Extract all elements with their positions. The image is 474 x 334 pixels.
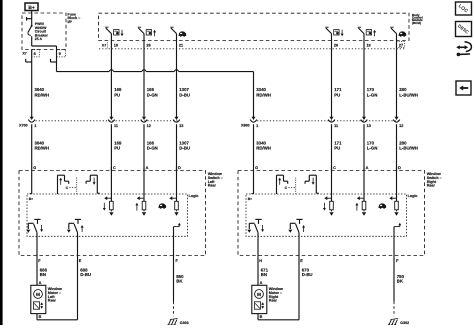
svg-text:D-BU: D-BU [179, 92, 190, 97]
svg-text:PU: PU [334, 92, 340, 97]
svg-text:A: A [366, 166, 369, 170]
svg-text:D-BU: D-BU [80, 272, 91, 277]
connector X800 pin 11 [328, 114, 338, 129]
wire 169 PU upper [111, 49, 122, 114]
svg-text:11: 11 [334, 124, 338, 128]
connector X700 pin 11 [108, 114, 118, 129]
wire B+ into switch [30, 171, 32, 195]
svg-text:X7: X7 [22, 51, 26, 55]
BCM switch window down driver pin 26 [325, 27, 343, 49]
svg-text:25 A: 25 A [35, 37, 43, 41]
svg-text:D-GN: D-GN [147, 92, 158, 97]
svg-text:B: B [39, 315, 42, 319]
svg-text:PU: PU [334, 145, 340, 150]
svg-text:PU: PU [114, 92, 120, 97]
svg-text:Logic: Logic [408, 194, 418, 198]
svg-text:C: C [113, 166, 116, 170]
window motor left rear M1 [31, 285, 78, 320]
fuse block I/P box [22, 12, 80, 49]
connector X800 pin 1 [250, 114, 258, 129]
icon DESC button [456, 22, 472, 37]
svg-text:A: A [39, 281, 42, 285]
svg-text:26: 26 [334, 43, 338, 47]
icon branch arrows [456, 42, 471, 56]
svg-text:D: D [178, 166, 181, 170]
svg-text:L-GN: L-GN [367, 92, 378, 97]
wire B+ bus to right window switch [57, 62, 271, 114]
svg-text:B: B [260, 315, 263, 319]
svg-text:Logic: Logic [189, 194, 199, 198]
logic input down [103, 167, 114, 216]
svg-text:Rear: Rear [269, 299, 278, 303]
BCM connector X7 row [99, 42, 406, 49]
connector X700 pin 12 [141, 114, 151, 129]
momentary contact up [277, 175, 288, 194]
icon back button [456, 81, 471, 95]
wire 686 BN [37, 256, 48, 286]
wire 170 L-GN lower to switch pin A [364, 124, 377, 170]
connector X800 pin 12 [393, 114, 403, 129]
wire 171 PU upper [332, 49, 343, 114]
svg-text:Rear: Rear [208, 184, 217, 188]
wire B+ into switch [251, 171, 253, 195]
svg-text:G302: G302 [400, 321, 409, 325]
svg-text:D-BU: D-BU [179, 145, 190, 150]
wire 3340 RD/WH lower to switch pin G [254, 124, 271, 170]
wire 1307 D-BU lower to switch pin D [177, 124, 191, 170]
svg-text:12: 12 [399, 124, 403, 128]
svg-text:G: G [255, 166, 258, 170]
svg-text:1307: 1307 [179, 87, 189, 92]
circuit breaker PWR/WNDW 25A [26, 11, 48, 47]
wire 280 L-BU/WH lower to switch pin D [397, 124, 418, 170]
wire 1307 D-BU upper [177, 49, 191, 114]
logic input up [135, 167, 146, 216]
logic ground output [394, 223, 401, 263]
svg-text:X800: X800 [241, 123, 250, 127]
svg-text:PU: PU [114, 145, 120, 150]
svg-text:1: 1 [256, 124, 258, 128]
svg-text:D-BU: D-BU [302, 272, 313, 277]
svg-text:A: A [260, 281, 263, 285]
wire breaker output bus [32, 46, 57, 50]
connector X700 pin 1 [28, 114, 36, 129]
BCM switch express logic output pin 27 [390, 27, 406, 49]
wire 3040 RD/WH left feed [32, 62, 49, 114]
svg-text:X700: X700 [19, 123, 28, 127]
wire 750 BK [394, 256, 405, 317]
svg-text:9: 9 [59, 52, 61, 56]
svg-text:L-BU/WH: L-BU/WH [399, 92, 418, 97]
svg-text:8: 8 [34, 52, 36, 56]
svg-text:L-GN: L-GN [367, 145, 378, 150]
wire 169 PU lower to switch pin C [111, 124, 122, 170]
output contact up [67, 219, 84, 263]
svg-text:E: E [79, 259, 82, 263]
svg-text:RD/WH: RD/WH [256, 92, 271, 97]
svg-text:RD/WH: RD/WH [256, 145, 271, 150]
connector X800 pin 13 [361, 114, 371, 129]
svg-text:28: 28 [146, 43, 150, 47]
BCM switch express logic output pin 21 [170, 27, 186, 49]
BCM switch window down driver pin 19 [105, 27, 123, 49]
svg-text:BK: BK [176, 279, 183, 284]
logic input down [323, 167, 334, 216]
svg-text:D-GN: D-GN [147, 145, 158, 150]
svg-text:C: C [333, 166, 336, 170]
svg-text:3040: 3040 [35, 87, 45, 92]
BCM switch window up driver pin 18 [358, 27, 376, 49]
svg-text:BK: BK [397, 279, 404, 284]
svg-text:19: 19 [114, 43, 118, 47]
momentary contact down [86, 175, 100, 193]
battery B+ feed [25, 3, 38, 11]
window switch Right rear box [238, 171, 442, 256]
svg-text:I/P: I/P [68, 20, 73, 24]
icon LOC button [456, 2, 472, 15]
fuse block pin 8 (X7) [22, 50, 39, 63]
output contact down [26, 219, 43, 263]
ground G303 [168, 318, 189, 325]
svg-text:169: 169 [114, 87, 122, 92]
output contact up [288, 219, 305, 263]
rocker mechanical link [66, 178, 77, 194]
svg-text:G303: G303 [180, 321, 189, 325]
wire 3040 RD/WH lower to switch pin G [32, 124, 49, 170]
wire 688 D-BU [78, 256, 92, 320]
svg-text:D: D [398, 166, 401, 170]
wire 171 PU lower to switch pin C [332, 124, 343, 170]
svg-text:L-BU/WH: L-BU/WH [399, 145, 418, 150]
svg-text:BN: BN [40, 272, 46, 277]
svg-text:H: H [259, 259, 262, 263]
svg-text:170: 170 [367, 87, 375, 92]
svg-text:3340: 3340 [256, 87, 266, 92]
svg-text:280: 280 [399, 87, 407, 92]
svg-text:M: M [257, 292, 261, 297]
svg-text:RD/WH: RD/WH [35, 92, 50, 97]
BCM switch window up driver pin 28 [138, 27, 156, 49]
svg-text:13: 13 [179, 124, 183, 128]
wire 170 L-GN upper [364, 49, 377, 114]
wire 280 L-BU/WH upper [397, 49, 418, 114]
svg-text:11: 11 [114, 124, 118, 128]
window motor right rear M2 [252, 285, 299, 320]
logic input car [159, 167, 179, 216]
svg-text:M: M [36, 292, 40, 297]
in-line connector X700 [19, 121, 179, 128]
svg-text:166: 166 [147, 87, 155, 92]
window switch Left rear box [19, 171, 223, 256]
svg-text:E: E [300, 259, 303, 263]
switch logic box [27, 194, 198, 236]
svg-text:12: 12 [147, 124, 151, 128]
svg-text:B+: B+ [248, 197, 252, 201]
rocker mechanical link [285, 178, 296, 194]
wire 550 BK [174, 256, 185, 317]
momentary contact down [305, 175, 319, 193]
svg-text:B+: B+ [28, 5, 34, 11]
svg-text:(BCM): (BCM) [412, 21, 421, 25]
logic ground output [174, 223, 181, 263]
ground G302 [388, 318, 409, 325]
in-line connector X800 [241, 121, 400, 128]
svg-text:A: A [146, 166, 149, 170]
svg-text:Rear: Rear [427, 184, 436, 188]
svg-text:21: 21 [179, 43, 183, 47]
logic input car [379, 167, 399, 216]
svg-text:Rear: Rear [48, 299, 57, 303]
svg-text:B+: B+ [29, 197, 33, 201]
wire 166 D-GN upper [144, 49, 158, 114]
svg-text:13: 13 [367, 124, 371, 128]
switch logic box [246, 194, 417, 236]
svg-text:1: 1 [34, 124, 36, 128]
svg-text:X7: X7 [102, 43, 106, 47]
wire 670 D-BU [299, 256, 313, 320]
wire 166 D-GN lower to switch pin A [144, 124, 158, 170]
svg-text:27: 27 [399, 43, 403, 47]
svg-text:G: G [33, 166, 36, 170]
output contact down [247, 219, 264, 263]
svg-text:18: 18 [366, 43, 370, 47]
logic input up [355, 167, 366, 216]
wire 671 BN [258, 256, 269, 286]
svg-text:171: 171 [334, 87, 342, 92]
body control module BCM box [99, 13, 423, 41]
connector X700 pin 13 [173, 114, 183, 129]
fuse block pin 9 [51, 50, 66, 63]
svg-text:BN: BN [261, 272, 267, 277]
svg-text:RD/WH: RD/WH [35, 145, 50, 150]
momentary contact up [58, 175, 69, 194]
